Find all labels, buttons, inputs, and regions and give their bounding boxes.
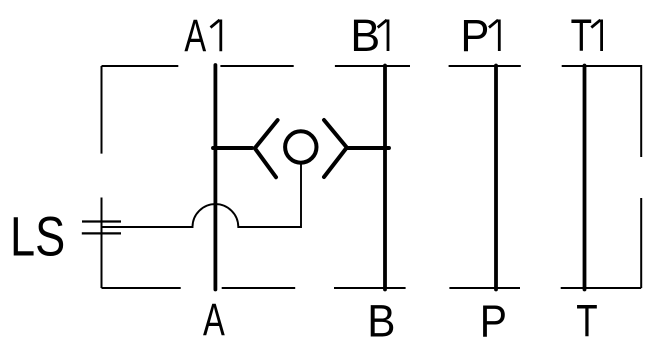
enclosure border bottom [102,287,642,289]
svg-text:A: A [203,294,225,345]
svg-text:T: T [571,10,592,61]
port label B1 [350,10,388,61]
wire A line to shuttle valve left seat [213,146,252,150]
wire port T (T1 to T vertical line) [583,66,587,290]
svg-text:A: A [184,10,206,61]
svg-text:B: B [350,10,380,61]
shuttle valve right seat [324,120,347,177]
enclosure border right [640,65,642,288]
enclosure border left [101,66,103,288]
svg-text:P: P [460,10,489,61]
svg-text:T: T [576,296,597,347]
port label P1 [460,10,499,61]
wire shuttle valve right seat to B line [347,146,389,150]
LS port tick marks (measuring connection) [82,222,121,234]
shuttle valve ball [285,131,316,162]
wire port P (P1 to P vertical line) [494,66,498,290]
enclosure border top (dashed valve body boundary) [102,65,642,67]
shuttle valve left seat [255,120,278,177]
wire port B (B1 to B vertical line) [383,66,387,290]
wire LS signal: shuttle output down, left, jump over A line, to LS port [102,164,302,227]
svg-text:P: P [480,296,507,347]
svg-text:B: B [367,296,395,347]
svg-text:LS: LS [10,206,65,268]
port label A1 [184,10,220,61]
port label T1 [571,10,602,61]
wire port A (A1 to A vertical line) [213,65,217,290]
